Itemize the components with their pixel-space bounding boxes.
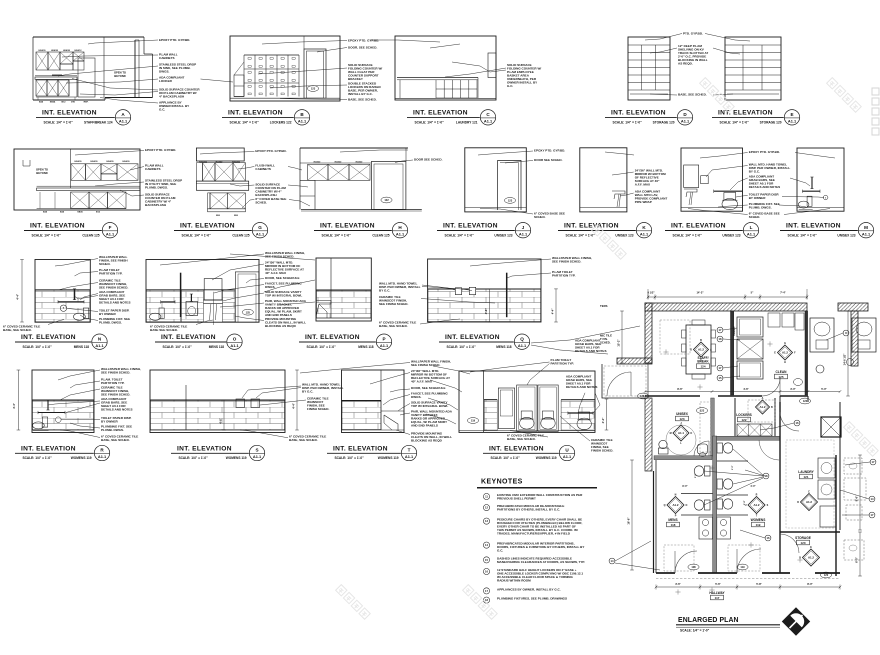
svg-text:DOOR SEE SCHED.: DOOR SEE SCHED. xyxy=(414,158,443,162)
svg-text:BY G.C.: BY G.C. xyxy=(379,289,390,293)
svg-text:BASE, SEE SCHED.: BASE, SEE SCHED. xyxy=(289,438,318,442)
elevation H - clean 125 xyxy=(300,147,408,149)
elevation T - womens 119 xyxy=(342,370,405,433)
svg-text:OPEN TO: OPEN TO xyxy=(114,71,126,75)
svg-text:CLEAN: CLEAN xyxy=(776,370,788,374)
svg-text:A1.2: A1.2 xyxy=(782,351,788,355)
svg-text:SEE FINISH SCHED.: SEE FINISH SCHED. xyxy=(99,285,128,289)
plan door tags xyxy=(696,408,707,414)
elevation K - unisex 123 xyxy=(580,148,627,212)
keynote 12 xyxy=(483,505,489,511)
svg-text:A1.1: A1.1 xyxy=(253,454,262,459)
svg-text:4'-6": 4'-6" xyxy=(484,308,488,315)
svg-text:BASE, SEE SCHED.: BASE, SEE SCHED. xyxy=(507,437,536,441)
svg-text:A1.1: A1.1 xyxy=(563,454,572,459)
svg-text:P: P xyxy=(382,336,385,341)
svg-text:BLOCKING AS REQD: BLOCKING AS REQD xyxy=(411,438,443,442)
svg-text:14'-2": 14'-2" xyxy=(696,291,704,295)
svg-text:17: 17 xyxy=(872,460,875,464)
plan mens fixtures xyxy=(694,466,704,476)
svg-text:A1.1: A1.1 xyxy=(678,431,684,435)
svg-text:SCALE: 1/4" = 1'-0": SCALE: 1/4" = 1'-0" xyxy=(307,345,337,349)
svg-text:INT. ELEVATION: INT. ELEVATION xyxy=(333,445,388,452)
svg-text:14: 14 xyxy=(871,497,874,501)
plan interior walls xyxy=(731,311,734,395)
elevation Q - mens 118 xyxy=(428,259,541,322)
svg-text:INT. ELEVATION: INT. ELEVATION xyxy=(564,223,619,230)
svg-text:15'-2": 15'-2" xyxy=(617,339,621,347)
svg-text:LOCKERS 122: LOCKERS 122 xyxy=(270,121,292,125)
elevation M - unisex 123 xyxy=(797,148,844,211)
svg-text:TRADES, MANUFACTURER/SUPPLIER,: TRADES, MANUFACTURER/SUPPLIER, # IN FIEL… xyxy=(497,531,571,535)
svg-text:PIPE WRAP: PIPE WRAP xyxy=(635,200,652,204)
svg-text:INT. ELEVATION: INT. ELEVATION xyxy=(320,223,375,230)
svg-text:U: U xyxy=(745,504,747,507)
svg-text:A1.1: A1.1 xyxy=(380,343,389,348)
svg-text:WOMENS 119: WOMENS 119 xyxy=(226,456,247,460)
svg-text:SEE FINISH SCHED.: SEE FINISH SCHED. xyxy=(411,363,440,367)
elevation F - clean 125 xyxy=(14,149,140,210)
svg-text:A1.1: A1.1 xyxy=(106,231,115,236)
svg-text:HALLWAY: HALLWAY xyxy=(709,591,725,595)
svg-text:G: G xyxy=(784,342,786,345)
svg-text:DETAILS AND NOTES: DETAILS AND NOTES xyxy=(566,385,598,389)
svg-text:D: D xyxy=(797,501,799,504)
svg-text:AS REQD.: AS REQD. xyxy=(678,61,693,65)
keynote 16 xyxy=(483,568,489,574)
svg-text:3'-0": 3'-0" xyxy=(695,473,697,478)
svg-text:MANEUVERING CLEARANCES AT DOOR: MANEUVERING CLEARANCES AT DOORS, AS SHOW… xyxy=(497,560,585,564)
svg-text:PARTITION TYP.: PARTITION TYP. xyxy=(551,362,575,366)
svg-text:REF.: REF. xyxy=(84,102,89,104)
svg-text:8'-0": 8'-0" xyxy=(807,582,813,586)
svg-text:119: 119 xyxy=(740,565,745,569)
svg-text:SCALE: 1/4" = 1'-0": SCALE: 1/4" = 1'-0" xyxy=(44,121,74,125)
svg-text:BY OWNER: BY OWNER xyxy=(99,312,117,316)
svg-text:A1.1: A1.1 xyxy=(862,231,871,236)
svg-text:120: 120 xyxy=(800,541,805,545)
leaders P xyxy=(230,254,315,260)
svg-text:O: O xyxy=(685,504,687,507)
svg-text:BEYOND: BEYOND xyxy=(114,74,126,78)
svg-text:RADIUS WITHIN ROOM: RADIUS WITHIN ROOM xyxy=(497,578,531,582)
svg-text:SCALE: 1/4" = 1'-0": SCALE: 1/4" = 1'-0" xyxy=(415,121,445,125)
svg-text:122: 122 xyxy=(384,198,389,202)
svg-text:DOORS, FIXTURES & FURNITURE BY: DOORS, FIXTURES & FURNITURE BY OTHERS, I… xyxy=(497,545,584,549)
svg-text:BASE, SEE SCHED.: BASE, SEE SCHED. xyxy=(101,438,130,442)
svg-text:A1.1: A1.1 xyxy=(256,231,265,236)
svg-text:B: B xyxy=(771,406,773,409)
svg-text:H24/30: H24/30 xyxy=(122,160,130,163)
svg-text:EPOXY PTD. GYP.BD.: EPOXY PTD. GYP.BD. xyxy=(749,150,780,154)
svg-text:BASE, SEE SCHED.: BASE, SEE SCHED. xyxy=(348,97,377,101)
keynote 11 xyxy=(483,493,489,499)
svg-text:N: N xyxy=(675,493,677,496)
svg-text:BASE, SEE SCHED.: BASE, SEE SCHED. xyxy=(678,92,707,96)
svg-text:A1.1: A1.1 xyxy=(681,119,690,124)
svg-text:A1.2: A1.2 xyxy=(759,405,765,409)
svg-text:14'-6 1/2": 14'-6 1/2" xyxy=(843,353,847,366)
svg-text:SCALE: 1/4" = 1'-0": SCALE: 1/4" = 1'-0" xyxy=(447,345,477,349)
svg-text:A1.1: A1.1 xyxy=(230,343,239,348)
door O xyxy=(235,272,259,322)
svg-text:INT. ELEVATION: INT. ELEVATION xyxy=(180,223,235,230)
svg-text:H30/90: H30/90 xyxy=(216,161,224,163)
plan door arcs xyxy=(762,378,780,396)
svg-text:4" BACKSPLASH: 4" BACKSPLASH xyxy=(159,94,184,98)
svg-text:EPOXY PTD. GYP.BD.: EPOXY PTD. GYP.BD. xyxy=(255,149,286,153)
svg-text:A1.1: A1.1 xyxy=(119,119,128,124)
svg-text:R: R xyxy=(756,493,758,496)
svg-text:EPOXY PTD. GYP.BD.: EPOXY PTD. GYP.BD. xyxy=(159,38,190,42)
svg-text:H24/30: H24/30 xyxy=(63,49,71,52)
svg-text:4'-4": 4'-4" xyxy=(601,417,605,424)
svg-text:5'-0": 5'-0" xyxy=(821,387,827,391)
svg-text:LAUNDRY: LAUNDRY xyxy=(798,470,814,474)
svg-text:G.C.: G.C. xyxy=(497,548,503,552)
plan keynote circles xyxy=(717,327,723,333)
svg-text:SEE FINISH SCHED.: SEE FINISH SCHED. xyxy=(552,260,581,264)
svg-text:123: 123 xyxy=(700,409,705,413)
svg-text:40" A.F.F. MAX: 40" A.F.F. MAX xyxy=(265,271,286,275)
svg-text:5'-8": 5'-8" xyxy=(756,582,762,586)
svg-text:H24/12: H24/12 xyxy=(74,49,82,52)
svg-text:INT. ELEVATION: INT. ELEVATION xyxy=(305,334,360,341)
keynote 14 xyxy=(483,542,489,548)
watermarks xyxy=(700,78,735,113)
plan top dimension line xyxy=(648,296,807,298)
svg-text:15: 15 xyxy=(485,558,488,562)
elevation E - storage 120 xyxy=(725,37,781,100)
svg-text:SCHED.: SCHED. xyxy=(749,215,761,219)
svg-text:SB36: SB36 xyxy=(77,212,83,214)
svg-text:E: E xyxy=(790,112,793,117)
svg-text:PARTITIONS BY OTHERS, INSTALL: PARTITIONS BY OTHERS, INSTALL BY G.C. xyxy=(497,508,560,512)
svg-text:STORAGE 120: STORAGE 120 xyxy=(653,121,675,125)
svg-text:40" A.F.F. MAX: 40" A.F.F. MAX xyxy=(411,380,432,384)
svg-text:TOP W/ INTEGRAL BOWL: TOP W/ INTEGRAL BOWL xyxy=(411,404,448,408)
svg-text:17: 17 xyxy=(871,513,874,517)
svg-text:SCALE: 1/4" = 1'-0": SCALE: 1/4" = 1'-0" xyxy=(680,629,710,633)
svg-text:INT. ELEVATION: INT. ELEVATION xyxy=(177,445,232,452)
svg-text:4'-0": 4'-0" xyxy=(750,485,755,488)
svg-text:7'-4": 7'-4" xyxy=(780,291,786,295)
svg-text:INT. ELEVATION: INT. ELEVATION xyxy=(228,110,283,117)
svg-text:117: 117 xyxy=(715,596,720,600)
svg-text:BEYOND: BEYOND xyxy=(36,171,48,175)
plan keynote 18 leaders to fixtures xyxy=(704,471,763,476)
svg-text:CABINETS: CABINETS xyxy=(159,56,175,60)
svg-text:DOOR SEE SCHED.: DOOR SEE SCHED. xyxy=(534,158,563,162)
svg-text:H: H xyxy=(784,361,786,364)
plan lockers row xyxy=(737,424,772,436)
svg-text:FINISH SCHED.: FINISH SCHED. xyxy=(307,407,329,411)
elevation N - mens 118 xyxy=(35,260,90,323)
svg-text:INT. ELEVATION: INT. ELEVATION xyxy=(413,110,468,117)
svg-text:17: 17 xyxy=(485,589,488,593)
plan exterior walls hatched xyxy=(645,303,807,311)
svg-text:BACKSPLASH: BACKSPLASH xyxy=(145,203,166,207)
plan pedicure chairs xyxy=(810,318,834,352)
svg-text:EPOXY PTD. GYP.BD.: EPOXY PTD. GYP.BD. xyxy=(348,38,379,42)
svg-text:ENLARGED PLAN: ENLARGED PLAN xyxy=(678,617,739,624)
svg-text:CLEAN 125: CLEAN 125 xyxy=(232,233,249,237)
svg-text:EPOXY PTD. GYP.BD.: EPOXY PTD. GYP.BD. xyxy=(534,149,565,153)
svg-text:J: J xyxy=(522,225,525,230)
flush valve partition bar O xyxy=(180,273,182,317)
svg-text:3'-0": 3'-0" xyxy=(790,387,796,391)
svg-text:CABINETS: CABINETS xyxy=(255,167,271,171)
svg-text:SCALE: 1/4" = 1'-0": SCALE: 1/4" = 1'-0" xyxy=(335,456,365,460)
svg-text:4'-4": 4'-4" xyxy=(12,402,16,409)
keynote 17 xyxy=(483,588,489,594)
svg-text:PREVIOUS SHELL PERMIT: PREVIOUS SHELL PERMIT xyxy=(497,496,536,500)
svg-text:STORAGE: STORAGE xyxy=(795,536,811,540)
svg-text:A1.1: A1.1 xyxy=(640,231,649,236)
svg-text:16'-6": 16'-6" xyxy=(627,517,631,525)
svg-text:125: 125 xyxy=(778,375,783,379)
svg-text:SCHED.: SCHED. xyxy=(600,340,611,344)
svg-text:UNISEX 123: UNISEX 123 xyxy=(837,233,855,237)
svg-text:BY OWNER: BY OWNER xyxy=(749,196,767,200)
svg-text:SCALE: 1/4" = 1'-0": SCALE: 1/4" = 1'-0" xyxy=(23,456,53,460)
plan dims bottom xyxy=(656,586,840,588)
svg-text:SCALE: 1/4" = 1'-0": SCALE: 1/4" = 1'-0" xyxy=(32,233,62,237)
svg-text:4'-4": 4'-4" xyxy=(292,402,296,409)
svg-text:INT. ELEVATION: INT. ELEVATION xyxy=(611,110,666,117)
svg-text:A: A xyxy=(710,349,712,352)
elevation G - clean 125 xyxy=(196,148,244,161)
svg-text:SCALE: 1/4" = 1'-0": SCALE: 1/4" = 1'-0" xyxy=(182,233,212,237)
svg-text:BLOCKING AS REQD: BLOCKING AS REQD xyxy=(265,324,297,328)
svg-text:Q: Q xyxy=(664,504,666,507)
elevation C - laundry 121 xyxy=(395,36,496,100)
keynote 18 xyxy=(483,597,489,603)
svg-text:APPLIANCES BY OWNER, INSTALL B: APPLIANCES BY OWNER, INSTALL BY G.C. xyxy=(497,587,561,591)
svg-text:STORAGE 120: STORAGE 120 xyxy=(760,121,782,125)
urinal O xyxy=(186,302,198,316)
plan dims sides xyxy=(631,460,633,570)
svg-text:A1.1: A1.1 xyxy=(98,454,107,459)
elevation R - womens 119 xyxy=(32,370,94,433)
svg-text:SEE FINISH SCHED.: SEE FINISH SCHED. xyxy=(379,302,408,306)
svg-text:UNISEX: UNISEX xyxy=(676,412,689,416)
svg-text:STAFF/BREAK 124: STAFF/BREAK 124 xyxy=(84,121,113,125)
svg-text:LAUNDRY 121: LAUNDRY 121 xyxy=(456,121,478,125)
svg-text:H30/250: H30/250 xyxy=(199,161,208,163)
svg-text:H30/30: H30/30 xyxy=(314,161,322,163)
svg-text:EPOXY PTD. GYP.BD.: EPOXY PTD. GYP.BD. xyxy=(145,148,176,152)
svg-text:SCHED.: SCHED. xyxy=(99,262,111,266)
plan room entry arcs bathrooms xyxy=(759,440,779,460)
leaders from Q title to plan xyxy=(531,326,640,343)
svg-text:DETAILS AND NOTES: DETAILS AND NOTES xyxy=(101,408,133,412)
svg-text:TOP W/ INTEGRAL BOWL: TOP W/ INTEGRAL BOWL xyxy=(265,294,302,298)
svg-text:8'-6": 8'-6" xyxy=(855,495,859,502)
svg-text:SCALE: 1/4" = 1'-0": SCALE: 1/4" = 1'-0" xyxy=(613,121,643,125)
leaders into U from left xyxy=(433,366,470,374)
svg-text:122: 122 xyxy=(803,399,808,403)
svg-text:16: 16 xyxy=(485,570,488,574)
svg-text:SCALE: 1/4" = 1'-0": SCALE: 1/4" = 1'-0" xyxy=(322,233,352,237)
svg-text:A1.1: A1.1 xyxy=(484,119,493,124)
svg-text:A1.2: A1.2 xyxy=(753,503,759,507)
svg-text:C: C xyxy=(808,490,810,493)
svg-text:12: 12 xyxy=(485,506,488,510)
plan laundry fixtures xyxy=(821,417,841,437)
elevation L - unisex 123 xyxy=(681,148,743,211)
svg-text:A1.2: A1.2 xyxy=(698,348,704,352)
svg-text:UNISEX 123: UNISEX 123 xyxy=(615,233,633,237)
svg-text:A1.1: A1.1 xyxy=(95,343,104,348)
svg-text:UNISEX 123: UNISEX 123 xyxy=(494,233,512,237)
svg-text:G: G xyxy=(258,225,262,230)
elevation S - womens 119 xyxy=(150,370,285,433)
svg-text:M: M xyxy=(864,225,868,230)
svg-text:WOMENS 119: WOMENS 119 xyxy=(71,456,92,460)
svg-text:CLEAN 125: CLEAN 125 xyxy=(372,233,389,237)
svg-text:C: C xyxy=(700,358,702,361)
svg-text:WOMENS 119: WOMENS 119 xyxy=(536,456,557,460)
svg-text:INT. ELEVATION: INT. ELEVATION xyxy=(42,110,97,117)
svg-text:PLUMB. DWGS.: PLUMB. DWGS. xyxy=(101,428,124,432)
svg-text:118: 118 xyxy=(691,565,696,569)
svg-text:A: A xyxy=(762,397,764,400)
svg-text:5'-0": 5'-0" xyxy=(732,465,734,470)
svg-text:125: 125 xyxy=(246,310,251,314)
svg-text:4'-4": 4'-4" xyxy=(551,308,555,315)
svg-text:MENS 118: MENS 118 xyxy=(209,345,224,349)
svg-text:INT. ELEVATION: INT. ELEVATION xyxy=(445,334,500,341)
svg-text:121: 121 xyxy=(803,475,808,479)
svg-text:119: 119 xyxy=(471,419,476,423)
svg-text:DOOR, SEE SCHEDULE: DOOR, SEE SCHEDULE xyxy=(265,276,300,280)
svg-text:WOMENS: WOMENS xyxy=(751,518,766,522)
svg-text:SCALE: 1/4" = 1'-0": SCALE: 1/4" = 1'-0" xyxy=(230,121,260,125)
svg-text:O: O xyxy=(233,336,237,341)
plan staff break table and chairs xyxy=(686,325,711,374)
svg-text:M: M xyxy=(670,432,672,435)
svg-text:120: 120 xyxy=(824,573,829,577)
svg-text:LOCKERS: LOCKERS xyxy=(736,413,752,417)
svg-text:A1.1: A1.1 xyxy=(518,343,527,348)
plan vestibule xyxy=(602,364,648,398)
svg-text:4'-4": 4'-4" xyxy=(16,293,20,300)
elevation P - mens 118 xyxy=(316,258,371,321)
svg-text:Q: Q xyxy=(520,336,524,341)
svg-text:INT. ELEVATION: INT. ELEVATION xyxy=(786,223,841,230)
svg-text:A1.1: A1.1 xyxy=(298,119,307,124)
svg-text:A1.2: A1.2 xyxy=(806,500,812,504)
elevation A - staff/break 124 xyxy=(33,36,144,38)
svg-text:INT. ELEVATION: INT. ELEVATION xyxy=(161,334,216,341)
svg-text:SCALE: 1/4" = 1'-0": SCALE: 1/4" = 1'-0" xyxy=(566,233,596,237)
svg-text:SCALE: 1/4" = 1'-0": SCALE: 1/4" = 1'-0" xyxy=(179,456,209,460)
svg-text:UNISEX 123: UNISEX 123 xyxy=(722,233,740,237)
svg-text:BREAK: BREAK xyxy=(697,360,709,364)
svg-text:INT. ELEVATION: INT. ELEVATION xyxy=(718,110,773,117)
svg-text:MENS 118: MENS 118 xyxy=(358,345,373,349)
svg-text:A1.1: A1.1 xyxy=(519,231,528,236)
svg-text:F: F xyxy=(109,225,112,230)
plan dashed clearances xyxy=(660,320,690,354)
elevation B - lockers 122 xyxy=(230,36,340,101)
svg-text:CABINETS: CABINETS xyxy=(145,167,161,171)
svg-text:H24/30: H24/30 xyxy=(38,49,46,52)
svg-text:SCALE: 1/4" = 1'-0": SCALE: 1/4" = 1'-0" xyxy=(673,233,703,237)
svg-text:CLEAN 125: CLEAN 125 xyxy=(82,233,99,237)
svg-text:H24/30: H24/30 xyxy=(51,49,59,52)
svg-text:INT. ELEVATION: INT. ELEVATION xyxy=(671,223,726,230)
svg-text:H24/30: H24/30 xyxy=(90,160,98,163)
svg-text:SEE FINISH SCHED.: SEE FINISH SCHED. xyxy=(101,370,130,374)
svg-text:A1.1: A1.1 xyxy=(405,454,414,459)
svg-text:123: 123 xyxy=(679,417,684,421)
svg-text:13: 13 xyxy=(485,519,488,523)
svg-text:DOOR, SEE SCHEDULE: DOOR, SEE SCHEDULE xyxy=(411,386,446,390)
svg-text:H24/30: H24/30 xyxy=(74,160,82,163)
plan elevation marker diamonds xyxy=(694,342,709,357)
svg-text:PLUMB. DWGS.: PLUMB. DWGS. xyxy=(749,206,772,210)
plan w/d stack xyxy=(737,317,763,337)
svg-text:PLUMBING FIXTURES, SEE PLUMB.: PLUMBING FIXTURES, SEE PLUMB. DRAWINGS xyxy=(497,597,567,601)
svg-text:4'-6": 4'-6" xyxy=(219,417,223,424)
svg-text:D: D xyxy=(799,557,801,560)
svg-text:BY G.C.: BY G.C. xyxy=(749,169,760,173)
svg-text:B: B xyxy=(700,339,702,342)
svg-text:SB24: SB24 xyxy=(50,101,56,104)
svg-text:OPEN TO: OPEN TO xyxy=(36,168,48,172)
svg-text:3'-6": 3'-6" xyxy=(675,582,681,586)
svg-text:DWGS.: DWGS. xyxy=(411,395,421,399)
svg-text:INT. ELEVATION: INT. ELEVATION xyxy=(30,223,85,230)
svg-text:BY G.C.: BY G.C. xyxy=(302,389,313,393)
svg-text:119: 119 xyxy=(756,523,761,527)
svg-text:18: 18 xyxy=(719,337,722,341)
svg-text:SEE FINISH SCHED.: SEE FINISH SCHED. xyxy=(101,392,130,396)
svg-text:SCALE: 1/4" = 1'-0": SCALE: 1/4" = 1'-0" xyxy=(720,121,750,125)
svg-text:14: 14 xyxy=(611,559,614,563)
svg-text:123: 123 xyxy=(508,199,513,203)
svg-text:MENS 118: MENS 118 xyxy=(74,345,89,349)
svg-text:KEYNOTES: KEYNOTES xyxy=(481,479,523,486)
elevation O - mens 118 xyxy=(146,260,259,323)
keynote 13 xyxy=(483,518,489,524)
svg-text:123: 123 xyxy=(311,87,316,91)
svg-text:17: 17 xyxy=(719,366,722,370)
svg-text:8'-6": 8'-6" xyxy=(677,387,683,391)
svg-text:124: 124 xyxy=(700,364,705,368)
plan east fixtures dashed xyxy=(844,458,862,474)
svg-text:122: 122 xyxy=(741,418,746,422)
svg-text:16: 16 xyxy=(796,421,799,425)
svg-text:SCALE: 1/4" = 1'-0": SCALE: 1/4" = 1'-0" xyxy=(491,456,521,460)
svg-text:PLUMB. DWGS.: PLUMB. DWGS. xyxy=(145,185,168,189)
svg-text:15: 15 xyxy=(719,376,722,380)
svg-text:S: S xyxy=(255,448,258,453)
svg-text:D: D xyxy=(690,349,692,352)
svg-text:TERS: TERS xyxy=(600,304,608,308)
svg-text:H30/30: H30/30 xyxy=(356,161,364,163)
svg-text:A1.1: A1.1 xyxy=(788,119,797,124)
plan dims middle xyxy=(645,391,840,393)
svg-text:MENS: MENS xyxy=(668,518,677,522)
svg-text:SCALE: 1/4" = 1'-0": SCALE: 1/4" = 1'-0" xyxy=(445,233,475,237)
svg-text:DWGS.: DWGS. xyxy=(159,69,169,73)
svg-text:INT. ELEVATION: INT. ELEVATION xyxy=(443,223,498,230)
svg-text:SCALE: 1/4" = 1'-0": SCALE: 1/4" = 1'-0" xyxy=(163,345,193,349)
svg-text:BASE SEE SCHED.: BASE SEE SCHED. xyxy=(150,328,178,332)
